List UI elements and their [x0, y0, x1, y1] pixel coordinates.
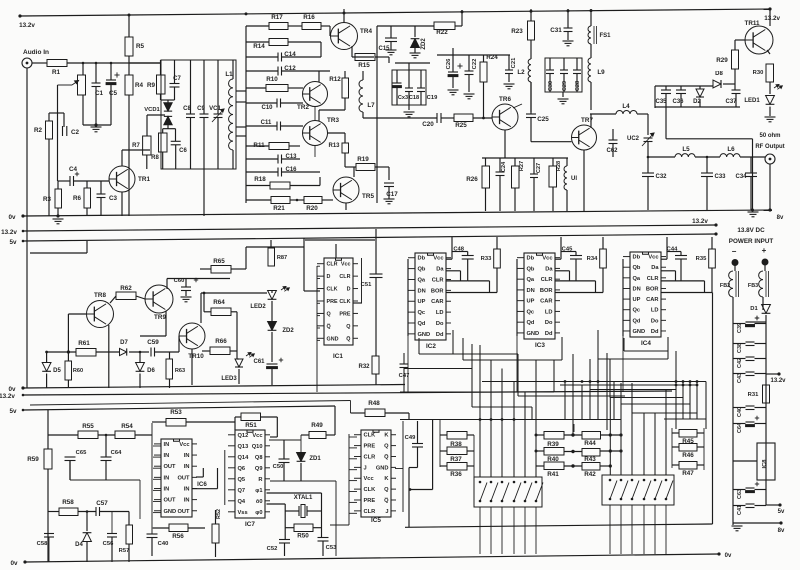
svg-text:R35: R35	[696, 256, 707, 262]
svg-text:Vcc: Vcc	[252, 433, 262, 439]
svg-text:C42: C42	[737, 358, 743, 368]
svg-text:Qb: Qb	[418, 267, 426, 273]
svg-text:IC1: IC1	[333, 353, 343, 360]
svg-text:C11: C11	[261, 120, 272, 126]
svg-text:C17: C17	[386, 191, 398, 198]
svg-text:R21: R21	[273, 205, 285, 212]
svg-text:R30: R30	[753, 70, 764, 76]
svg-text:BOR: BOR	[540, 288, 553, 294]
svg-text:R43: R43	[584, 456, 596, 463]
svg-text:R57: R57	[119, 548, 130, 554]
svg-text:Vss: Vss	[238, 510, 248, 516]
svg-text:R32: R32	[358, 364, 370, 370]
svg-text:Q̅: Q̅	[346, 335, 350, 342]
svg-text:Db: Db	[527, 256, 535, 262]
svg-text:Q8: Q8	[255, 455, 263, 461]
svg-text:POWER INPUT: POWER INPUT	[729, 238, 774, 245]
svg-text:Vcc: Vcc	[364, 476, 374, 482]
svg-text:Vcc: Vcc	[179, 442, 189, 448]
svg-text:8v: 8v	[778, 528, 785, 534]
svg-text:R31: R31	[748, 392, 759, 398]
svg-text:Qd: Qd	[418, 321, 426, 327]
svg-text:C21: C21	[511, 57, 517, 68]
svg-text:L9: L9	[597, 69, 605, 76]
svg-text:Q: Q	[346, 324, 350, 330]
svg-text:R66: R66	[215, 338, 227, 345]
svg-text:GND: GND	[418, 332, 431, 338]
svg-text:IC3: IC3	[535, 342, 545, 349]
svg-text:C15: C15	[378, 46, 390, 52]
svg-text:CLK: CLK	[339, 299, 350, 305]
svg-text:OUT: OUT	[164, 464, 177, 470]
svg-text:IN: IN	[184, 498, 190, 504]
svg-text:R49: R49	[311, 422, 323, 429]
svg-text:Q̅: Q̅	[384, 454, 389, 461]
svg-text:TR5: TR5	[362, 193, 374, 200]
svg-text:13.2v: 13.2v	[0, 393, 15, 400]
svg-text:DN: DN	[418, 288, 426, 294]
svg-text:5v: 5v	[778, 509, 785, 515]
svg-text:FB2: FB2	[720, 283, 730, 289]
svg-text:C40: C40	[158, 541, 169, 547]
svg-text:C58: C58	[37, 541, 48, 547]
svg-text:TR4: TR4	[360, 28, 372, 35]
svg-text:C50: C50	[273, 464, 284, 470]
svg-text:Q: Q	[384, 487, 389, 493]
svg-text:Dd: Dd	[436, 332, 444, 338]
svg-text:Qb: Qb	[527, 266, 535, 272]
svg-text:CLK: CLK	[364, 433, 377, 439]
svg-text:Q4: Q4	[238, 499, 246, 505]
svg-text:CLR: CLR	[364, 454, 376, 460]
svg-text:IC2: IC2	[426, 343, 436, 350]
svg-text:IN: IN	[164, 486, 170, 492]
svg-text:TR6: TR6	[499, 96, 511, 103]
svg-text:Da: Da	[651, 265, 659, 271]
svg-text:TR9: TR9	[154, 314, 166, 321]
svg-text:C22: C22	[472, 59, 478, 70]
svg-text:R60: R60	[73, 368, 83, 374]
svg-text:GND: GND	[527, 331, 540, 337]
svg-text:C28: C28	[575, 81, 581, 91]
svg-text:C64: C64	[111, 450, 122, 456]
svg-text:R53: R53	[170, 409, 182, 416]
svg-text:Vcc: Vcc	[433, 256, 443, 262]
svg-text:R59: R59	[27, 456, 39, 463]
svg-text:OUT: OUT	[177, 475, 190, 481]
svg-text:Qc: Qc	[527, 309, 535, 315]
svg-text:Q9: Q9	[255, 466, 263, 472]
svg-text:C2: C2	[71, 129, 80, 136]
svg-text:R27: R27	[519, 161, 525, 171]
svg-text:C10: C10	[261, 105, 273, 111]
svg-text:R42: R42	[584, 471, 596, 478]
svg-text:Qa: Qa	[633, 276, 641, 282]
svg-text:CLK: CLK	[364, 487, 377, 493]
svg-text:R29: R29	[716, 57, 728, 64]
svg-text:IC5: IC5	[371, 517, 381, 524]
svg-text:Cx3: Cx3	[398, 95, 408, 101]
svg-text:DN: DN	[527, 288, 535, 294]
svg-text:C27: C27	[536, 163, 542, 173]
svg-text:R47: R47	[682, 470, 694, 477]
svg-text:Dd: Dd	[651, 329, 659, 335]
svg-text:CLR: CLR	[647, 276, 659, 282]
svg-text:CLK: CLK	[327, 287, 338, 293]
svg-text:50 ohm: 50 ohm	[759, 133, 780, 139]
svg-text:IN: IN	[184, 464, 190, 470]
svg-text:CLR: CLR	[364, 509, 376, 515]
svg-text:LD: LD	[651, 308, 659, 314]
svg-text:R20: R20	[306, 205, 318, 212]
svg-text:C62: C62	[606, 148, 618, 154]
svg-text:BOR: BOR	[646, 286, 659, 292]
svg-text:5v: 5v	[9, 239, 17, 246]
svg-text:R13: R13	[328, 143, 340, 149]
svg-text:R36: R36	[450, 471, 462, 478]
svg-text:C26: C26	[446, 58, 452, 69]
svg-text:L7: L7	[367, 102, 375, 109]
svg-text:C65: C65	[76, 450, 87, 456]
svg-text:IC6: IC6	[197, 481, 207, 488]
svg-text:PRE: PRE	[339, 311, 350, 317]
svg-text:R18: R18	[254, 176, 266, 183]
svg-text:Qa: Qa	[527, 277, 535, 283]
svg-text:Do: Do	[436, 321, 444, 327]
svg-text:J: J	[364, 465, 367, 471]
svg-text:R9: R9	[147, 82, 156, 89]
svg-text:DN: DN	[633, 286, 641, 292]
svg-text:R65: R65	[213, 258, 225, 265]
svg-text:R34: R34	[587, 256, 598, 262]
svg-text:R10: R10	[266, 76, 278, 83]
svg-text:VCD1: VCD1	[144, 107, 160, 113]
svg-text:13.8V DC: 13.8V DC	[737, 227, 765, 234]
svg-text:C19: C19	[427, 95, 438, 101]
svg-text:UP: UP	[633, 297, 641, 303]
svg-text:R54: R54	[121, 423, 133, 430]
svg-text:C40: C40	[737, 407, 743, 417]
svg-text:C63: C63	[737, 489, 743, 499]
svg-text:0v: 0v	[10, 560, 18, 567]
svg-text:R46: R46	[682, 452, 694, 459]
svg-text:13.2v: 13.2v	[764, 15, 780, 22]
svg-text:R15: R15	[358, 62, 370, 69]
svg-text:R44: R44	[584, 440, 596, 447]
svg-text:R17: R17	[271, 14, 283, 21]
svg-text:R64: R64	[213, 299, 225, 306]
svg-text:φ1: φ1	[255, 488, 262, 494]
svg-text:R62: R62	[120, 285, 132, 292]
svg-text:J: J	[385, 509, 388, 515]
svg-text:ō0: ō0	[256, 499, 263, 505]
svg-text:Qc: Qc	[633, 308, 641, 314]
svg-text:R8: R8	[151, 155, 159, 161]
svg-text:R22: R22	[436, 29, 448, 36]
svg-text:TR8: TR8	[94, 292, 106, 299]
svg-text:Q13: Q13	[238, 444, 249, 450]
svg-text:D: D	[327, 274, 331, 280]
svg-text:Q7: Q7	[238, 488, 246, 494]
svg-text:D6: D6	[147, 368, 155, 374]
svg-text:Vcc: Vcc	[341, 262, 351, 268]
svg-text:C18: C18	[409, 95, 419, 101]
svg-text:C6: C6	[179, 148, 187, 154]
svg-text:Da: Da	[545, 266, 553, 272]
svg-text:R19: R19	[357, 156, 369, 163]
svg-text:R39: R39	[547, 441, 559, 448]
svg-text:C52: C52	[267, 546, 278, 552]
svg-text:Q: Q	[327, 311, 331, 317]
svg-text:LED3: LED3	[221, 376, 237, 382]
svg-text:L6: L6	[727, 146, 735, 153]
svg-text:GND: GND	[376, 465, 389, 471]
svg-text:Q6: Q6	[238, 466, 246, 472]
svg-text:XTAL1: XTAL1	[294, 495, 313, 501]
svg-text:VC1: VC1	[209, 106, 221, 112]
svg-text:C57: C57	[96, 500, 108, 507]
svg-text:13.2v: 13.2v	[19, 22, 35, 29]
svg-text:CAR: CAR	[646, 297, 658, 303]
svg-text:R16: R16	[303, 14, 315, 21]
svg-text:C34: C34	[735, 174, 747, 180]
svg-text:R5: R5	[136, 43, 145, 50]
svg-text:Vcc: Vcc	[648, 255, 658, 261]
svg-text:R6: R6	[73, 195, 82, 202]
svg-text:UC2: UC2	[627, 136, 640, 142]
svg-text:LED1: LED1	[744, 98, 760, 104]
svg-text:TR1: TR1	[138, 176, 150, 183]
svg-text:IN: IN	[184, 453, 190, 459]
svg-text:IN: IN	[164, 453, 170, 459]
svg-text:CAR: CAR	[431, 299, 443, 305]
svg-text:R50: R50	[297, 533, 309, 540]
svg-text:C24: C24	[501, 161, 507, 172]
svg-text:C60: C60	[174, 278, 185, 284]
svg-text:IC8: IC8	[762, 459, 768, 469]
svg-text:TR2: TR2	[297, 104, 309, 111]
svg-text:φ0: φ0	[255, 510, 262, 516]
svg-text:Qb: Qb	[633, 265, 641, 271]
svg-text:C49: C49	[405, 435, 416, 441]
svg-text:FB3: FB3	[748, 283, 758, 289]
svg-text:R41: R41	[547, 471, 559, 478]
svg-text:C4: C4	[69, 166, 78, 173]
svg-text:R14: R14	[253, 43, 265, 50]
svg-text:UP: UP	[527, 299, 535, 305]
svg-text:GND: GND	[633, 329, 646, 335]
svg-text:L1: L1	[225, 71, 233, 78]
svg-text:OUT: OUT	[177, 509, 190, 515]
svg-text:ZD2: ZD2	[421, 38, 427, 50]
svg-text:R48: R48	[368, 400, 380, 407]
svg-text:Q10: Q10	[252, 444, 263, 450]
svg-text:D5: D5	[53, 368, 61, 374]
svg-text:ZD1: ZD1	[309, 456, 321, 462]
svg-text:IN: IN	[184, 486, 190, 492]
svg-text:D7: D7	[120, 340, 128, 346]
svg-text:CLR: CLR	[339, 274, 350, 280]
svg-text:OUT: OUT	[164, 498, 177, 504]
svg-text:0v: 0v	[8, 386, 16, 393]
svg-text:−: −	[732, 247, 737, 256]
svg-text:C5: C5	[109, 90, 118, 97]
svg-text:TR3: TR3	[327, 117, 339, 124]
svg-text:BOR: BOR	[431, 288, 444, 294]
svg-text:ZD2: ZD2	[282, 328, 294, 334]
svg-text:R37: R37	[450, 456, 462, 463]
svg-text:D1: D1	[750, 306, 758, 312]
svg-text:Qa: Qa	[418, 277, 426, 283]
svg-text:Qc: Qc	[418, 310, 426, 316]
svg-text:PRE: PRE	[327, 299, 338, 305]
svg-text:Q: Q	[384, 444, 389, 450]
svg-text:D: D	[347, 287, 351, 293]
svg-text:L5: L5	[682, 146, 690, 153]
svg-text:C30: C30	[548, 81, 554, 91]
svg-text:CAR: CAR	[540, 299, 552, 305]
svg-text:13.2v: 13.2v	[1, 229, 17, 236]
svg-text:R56: R56	[172, 533, 184, 540]
svg-text:GND: GND	[164, 509, 177, 515]
svg-text:C41: C41	[737, 505, 743, 515]
svg-text:PRE: PRE	[364, 444, 376, 450]
svg-text:IC4: IC4	[641, 340, 651, 347]
svg-text:R61: R61	[78, 340, 90, 347]
svg-text:Qd: Qd	[633, 318, 641, 324]
svg-text:8v: 8v	[777, 215, 784, 221]
svg-text:R28: R28	[556, 161, 562, 171]
svg-text:CLR: CLR	[327, 262, 338, 268]
svg-text:Db: Db	[633, 255, 641, 261]
svg-text:R51: R51	[245, 422, 257, 429]
svg-text:C43: C43	[737, 373, 743, 383]
svg-text:13.2v: 13.2v	[770, 378, 786, 384]
svg-text:Q12: Q12	[238, 433, 249, 439]
svg-text:D8: D8	[715, 71, 723, 77]
svg-text:5v: 5v	[9, 408, 17, 415]
svg-text:C32: C32	[655, 174, 667, 180]
svg-text:Do: Do	[651, 318, 659, 324]
svg-text:C29: C29	[562, 81, 568, 91]
svg-text:L2: L2	[517, 69, 525, 76]
svg-text:R52: R52	[216, 509, 222, 519]
svg-text:R58: R58	[62, 499, 74, 506]
svg-text:IN: IN	[164, 442, 170, 448]
svg-text:Q̅: Q̅	[327, 323, 331, 330]
svg-text:Vcc: Vcc	[542, 256, 552, 262]
svg-text:C61: C61	[253, 359, 265, 365]
svg-text:C20: C20	[422, 121, 434, 128]
svg-text:IC7: IC7	[245, 521, 255, 528]
svg-text:FS1: FS1	[599, 33, 611, 39]
svg-text:Do: Do	[545, 320, 553, 326]
svg-text:TR11: TR11	[744, 20, 760, 27]
svg-text:C31: C31	[550, 27, 562, 34]
svg-text:C36: C36	[672, 99, 684, 105]
svg-text:0v: 0v	[725, 553, 732, 559]
svg-text:LD: LD	[545, 309, 553, 315]
svg-text:R63: R63	[175, 368, 185, 374]
svg-text:C33: C33	[714, 174, 726, 180]
svg-text:C25: C25	[537, 116, 549, 123]
svg-text:0v: 0v	[8, 214, 16, 221]
svg-text:UP: UP	[418, 299, 426, 305]
svg-text:Da: Da	[436, 267, 444, 273]
svg-text:R4: R4	[135, 82, 144, 89]
svg-text:R3: R3	[43, 196, 52, 203]
svg-text:R55: R55	[82, 423, 94, 430]
svg-text:C53: C53	[326, 545, 337, 551]
svg-text:Q̅: Q̅	[384, 497, 389, 504]
svg-text:GND: GND	[327, 336, 339, 342]
svg-text:C3: C3	[109, 195, 118, 202]
svg-text:R7: R7	[132, 143, 140, 149]
svg-text:C38: C38	[737, 343, 743, 353]
svg-text:R33: R33	[481, 256, 492, 262]
svg-text:R: R	[258, 477, 262, 483]
svg-text:R1: R1	[52, 69, 61, 76]
svg-text:Qd: Qd	[527, 320, 535, 326]
svg-text:Ul: Ul	[571, 176, 577, 182]
svg-text:CLR: CLR	[432, 277, 444, 283]
svg-text:+: +	[762, 246, 767, 255]
svg-text:CLR: CLR	[541, 277, 553, 283]
svg-text:13.2v: 13.2v	[692, 218, 708, 225]
svg-text:LED2: LED2	[250, 304, 266, 310]
svg-text:R23: R23	[511, 28, 523, 35]
svg-text:C39: C39	[737, 323, 743, 333]
svg-text:L4: L4	[622, 103, 630, 110]
svg-text:R25: R25	[455, 122, 467, 129]
svg-text:IN: IN	[164, 475, 170, 481]
svg-text:Dd: Dd	[545, 331, 553, 337]
svg-text:R87: R87	[277, 255, 287, 261]
svg-text:D4: D4	[75, 542, 83, 548]
svg-text:Audio In: Audio In	[23, 49, 49, 56]
svg-text:LD: LD	[436, 310, 444, 316]
svg-text:Db: Db	[418, 256, 426, 262]
svg-text:R2: R2	[34, 127, 43, 134]
svg-text:C59: C59	[147, 339, 159, 346]
svg-text:RF Output: RF Output	[755, 144, 784, 150]
svg-text:Q14: Q14	[238, 455, 250, 461]
svg-text:R26: R26	[466, 176, 478, 183]
svg-text:C7: C7	[173, 76, 181, 82]
svg-text:C64: C64	[737, 423, 743, 433]
svg-text:PRE: PRE	[364, 498, 376, 504]
svg-text:Q5: Q5	[238, 477, 246, 483]
svg-text:TR10: TR10	[188, 353, 204, 360]
svg-text:R12: R12	[329, 76, 341, 83]
svg-text:C51: C51	[361, 282, 372, 288]
